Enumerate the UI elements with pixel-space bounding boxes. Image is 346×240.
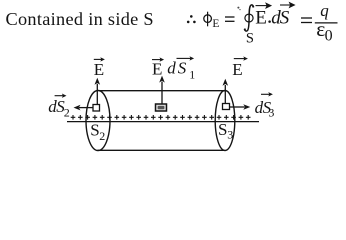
svg-text:2: 2 [99, 129, 105, 143]
svg-text:1: 1 [189, 67, 195, 81]
svg-text:E: E [212, 18, 219, 30]
cylinder top line [99, 90, 226, 92]
row of plus charges [71, 115, 251, 120]
svg-text:S: S [178, 59, 187, 78]
svg-text:E: E [152, 60, 162, 79]
dS3 arrow pointing right [230, 104, 251, 110]
svg-text:S: S [218, 120, 227, 139]
svg-text:E: E [94, 60, 104, 79]
dot operator [268, 20, 271, 23]
equals sign 2 [301, 18, 312, 23]
svg-text:d: d [167, 59, 176, 78]
svg-text:S: S [280, 8, 290, 29]
svg-text:E: E [232, 60, 242, 79]
svg-text:E: E [255, 8, 267, 29]
E field arrow right [223, 79, 229, 104]
area element square on right cap [223, 104, 230, 110]
svg-text:3: 3 [268, 106, 274, 120]
E field arrow left [95, 78, 101, 105]
right end cap ellipse S3 [215, 91, 235, 151]
svg-text:0: 0 [325, 28, 333, 45]
therefore symbol [187, 15, 196, 23]
left end cap ellipse S2 [86, 91, 110, 151]
phi_E flux symbol [204, 12, 212, 27]
charged line through cylinder axis [67, 121, 259, 123]
cylinder bottom line [98, 149, 225, 151]
dS2 arrow pointing left [74, 105, 94, 111]
area element rectangle dS1 on curved surface [156, 104, 167, 111]
svg-text:3: 3 [227, 128, 233, 142]
svg-text:Contained in side S: Contained in side S [6, 9, 154, 29]
closed contour integral [244, 5, 253, 31]
E field arrow middle [159, 76, 165, 104]
scan speck [237, 7, 240, 11]
area element square on left cap [93, 105, 100, 112]
equals sign 1 [225, 17, 235, 21]
svg-text:2: 2 [64, 106, 70, 120]
svg-text:S: S [246, 31, 254, 47]
